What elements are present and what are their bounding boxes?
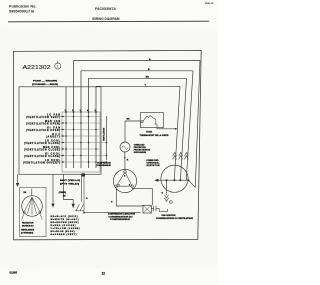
wire fan lead right — [40, 213, 42, 220]
wire column 5 — [95, 86, 97, 168]
svg-text:COMPRESSEUR: COMPRESSEUR — [96, 165, 111, 167]
svg-text:(3 VITESSES): (3 VITESSES) — [21, 232, 33, 234]
wire compressor R to capacitor — [132, 188, 152, 206]
wire BK overload to tstat — [125, 121, 141, 142]
header publication number — [9, 5, 37, 14]
switch position labels — [23, 114, 61, 165]
svg-text:THERMOSTAT DE LA PIECE: THERMOSTAT DE LA PIECE — [140, 134, 170, 137]
switch contact dots — [65, 116, 107, 163]
overload protector OL — [120, 142, 130, 152]
selector switch S1 caption — [32, 81, 58, 86]
svg-text:12: 12 — [102, 271, 106, 275]
fan motor M2 — [22, 196, 43, 217]
overload caption — [134, 144, 151, 155]
svg-text:01/95: 01/95 — [10, 271, 18, 275]
svg-text:(VENTILATION CLOSE): (VENTILATION CLOSE) — [24, 149, 60, 152]
thermostat box U1 — [140, 113, 163, 128]
wire H3 — [89, 77, 187, 79]
wire column 2 — [73, 61, 75, 169]
svg-text:5995409917 B: 5995409917 B — [9, 10, 35, 14]
compressor motor M1 — [113, 169, 136, 192]
compressor terminal R — [131, 185, 134, 188]
node branch corner — [83, 212, 85, 214]
svg-text:MOT (YELLO): MOT (YELLO) — [60, 180, 81, 182]
wire compressor C down — [116, 188, 143, 206]
wire column 3 — [80, 71, 82, 168]
svg-text:G=GREEN (VERT): G=GREEN (VERT) — [51, 234, 77, 236]
svg-text:(VENTILATION CLOSE): (VENTILATION CLOSE) — [24, 155, 60, 158]
header rule — [8, 20, 209, 23]
timer contacts — [75, 204, 84, 211]
svg-text:CONDENSATEUR DU: CONDENSATEUR DU — [109, 215, 134, 218]
fan capacitor caption — [156, 214, 194, 220]
power plug P1 — [161, 165, 188, 192]
compressor capacitor caption — [108, 213, 136, 222]
svg-text:BK=BLACK (NOIR): BK=BLACK (NOIR) — [51, 215, 78, 218]
svg-text:COMPRESSOR CAPACITOR: COMPRESSOR CAPACITOR — [108, 213, 136, 216]
ground lead G — [166, 180, 168, 195]
selector switch S1 body — [19, 87, 101, 175]
arrow bus left — [154, 179, 158, 182]
wire column 4 — [88, 78, 90, 168]
svg-text:(PTI TELD): (PTI TELD) — [60, 183, 80, 185]
pin number labels — [65, 109, 96, 112]
svg-text:R=RED (ROUGE): R=RED (ROUGE) — [51, 225, 76, 227]
wire fan stub — [31, 189, 33, 196]
drawing number A221302 — [23, 61, 61, 71]
switch terminal block — [82, 173, 85, 176]
svg-text:VENTILATEUR: VENTILATEUR — [21, 229, 35, 232]
wire R3 right vertical — [180, 78, 186, 180]
ground symbol — [169, 201, 172, 204]
thermostat contact — [141, 116, 157, 124]
svg-text:FAN MOTOR: FAN MOTOR — [22, 222, 34, 225]
column terminal dots — [65, 111, 97, 113]
svg-text:(VENTILATION OPEN): (VENTILATION OPEN) — [26, 129, 60, 132]
compressor terminal S — [124, 171, 127, 174]
svg-text:▬▬ ▬: ▬▬ ▬ — [205, 2, 214, 5]
svg-text:FAC053W7A: FAC053W7A — [95, 7, 117, 11]
wire switch stub — [81, 174, 83, 202]
svg-text:(TIMER): (TIMER) — [59, 192, 67, 194]
switch row lines — [62, 117, 107, 163]
node tstat-R4 — [175, 128, 177, 130]
node bus dots — [166, 179, 190, 181]
wire timer branch — [84, 174, 141, 212]
fan terminal b — [39, 211, 41, 213]
svg-text:SURCHARGE: SURCHARGE — [134, 151, 147, 154]
svg-text:A221302: A221302 — [23, 65, 51, 71]
wire H1 black — [74, 60, 201, 62]
svg-text:BU=BLUE (BLEU): BU=BLUE (BLEU) — [51, 231, 75, 233]
svg-text:(VENTILATION OUVERT): (VENTILATION OUVERT) — [23, 162, 60, 165]
selector switch contact matrix — [62, 112, 100, 172]
wire overload to compressor — [124, 152, 126, 171]
arrow to fan lo — [51, 174, 54, 207]
capacitor box C1 — [143, 205, 151, 213]
capacitor C2 plates — [151, 206, 167, 212]
wire H2 — [81, 70, 193, 72]
fan caption — [21, 222, 35, 235]
svg-text:WIRING DIAGRAM: WIRING DIAGRAM — [92, 17, 120, 21]
power cord caption — [147, 160, 161, 167]
svg-text:(POUSSER — BRUN): (POUSSER — BRUN) — [32, 84, 58, 86]
header model number — [92, 7, 120, 21]
wire H4 — [96, 85, 180, 87]
legend wire colors — [51, 215, 80, 236]
svg-text:1: 1 — [56, 65, 58, 69]
svg-text:BK: BK — [146, 76, 150, 78]
svg-text:(ARRET): (ARRET) — [46, 136, 60, 139]
diagram border frame — [13, 50, 201, 239]
svg-text:Y=YELLOW (JAUNE): Y=YELLOW (JAUNE) — [51, 227, 80, 230]
svg-text:(VENTILATION CLOSE): (VENTILATION CLOSE) — [24, 142, 60, 145]
arrow to fan hi — [64, 174, 75, 208]
svg-text:(VENTILATION VENT): (VENTILATION VENT) — [26, 116, 60, 119]
svg-text:(VENTILATION OPEN): (VENTILATION OPEN) — [26, 123, 60, 126]
svg-text:VENTILATION: VENTILATION — [103, 127, 106, 141]
wire R4 right vertical — [174, 86, 180, 180]
svg-text:W=WHITE (BLANC): W=WHITE (BLANC) — [51, 218, 79, 221]
wire matrix long drop — [106, 116, 108, 160]
wire plug bus — [158, 179, 189, 181]
svg-text:MOTEUR DU: MOTEUR DU — [22, 225, 34, 227]
wire column 1 — [65, 87, 67, 168]
node R — [124, 157, 126, 159]
svg-text:CONDENSATEUR DU VENTILATEUR: CONDENSATEUR DU VENTILATEUR — [156, 217, 194, 220]
svg-text:COMPRESSEUR: COMPRESSEUR — [110, 219, 131, 221]
svg-text:PUSH — BROWN: PUSH — BROWN — [33, 81, 58, 83]
plug prong arrow L1 — [173, 152, 177, 159]
svg-text:FAN CAPACITOR: FAN CAPACITOR — [162, 214, 177, 217]
wire R1 right vertical — [195, 61, 200, 188]
wire R1 tail to bus — [189, 181, 196, 188]
arrow into fan box — [16, 174, 19, 187]
wire fan lead left — [22, 213, 24, 219]
wire tstat to plug line — [157, 124, 176, 129]
row terminal dots — [62, 116, 63, 163]
wire R2 right vertical — [186, 71, 193, 180]
fan terminal a — [23, 211, 25, 213]
svg-text:Publication No.: Publication No. — [9, 5, 37, 9]
svg-text:MENTATION: MENTATION — [147, 164, 161, 167]
plug prong arrow L2 — [179, 152, 183, 159]
fan enclosure box — [20, 188, 47, 237]
svg-text:TSTAT: TSTAT — [146, 130, 153, 133]
svg-text:BR=BROWN (BRUN): BR=BROWN (BRUN) — [51, 222, 79, 224]
plug prong arrow L3 — [184, 152, 188, 159]
compressor terminal C — [115, 185, 118, 188]
